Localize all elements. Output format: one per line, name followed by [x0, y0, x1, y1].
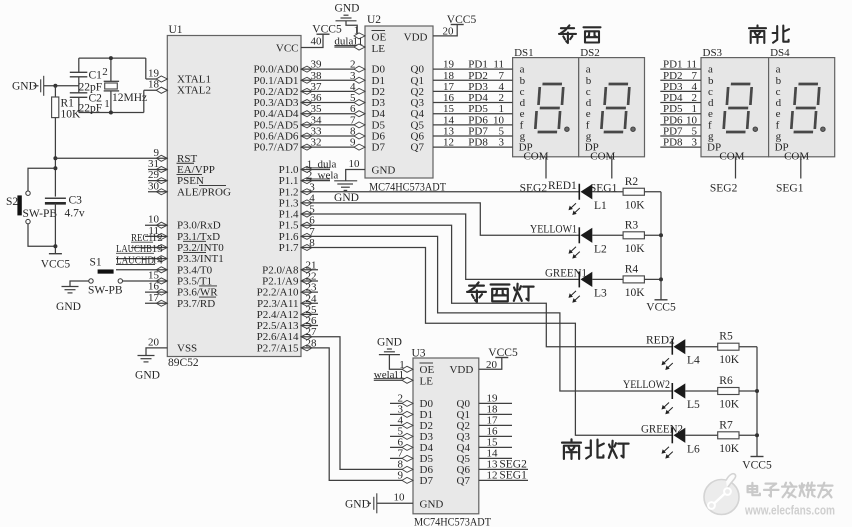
svg-text:20: 20 — [443, 26, 455, 38]
wire U2 VDD to VCC5 — [433, 25, 457, 36]
wire to XTAL1 — [145, 58, 147, 79]
wire P1.7 to GREEN2 LED — [301, 248, 672, 436]
wire VCC rail 2 — [756, 347, 758, 457]
svg-text:10K: 10K — [625, 199, 646, 211]
wire wela stub P1.1 — [301, 180, 330, 182]
wire LED to R7 — [685, 434, 717, 436]
latch U3 MC74HC573ADT body — [413, 358, 479, 514]
svg-text:VDD: VDD — [449, 364, 473, 376]
svg-text:10K: 10K — [719, 354, 740, 366]
svg-text:wela: wela — [318, 170, 339, 182]
wire gnd to R1 — [54, 86, 56, 97]
LED light arrows — [662, 447, 673, 459]
svg-text:GND: GND — [420, 499, 444, 511]
watermark text dianzifashaoyou — [748, 483, 760, 495]
svg-text:www.elecfans.com: www.elecfans.com — [744, 504, 835, 518]
power VCC5 bar (U2) — [451, 24, 464, 26]
power VCC5 bar (rail2) — [751, 456, 764, 458]
svg-text:10: 10 — [394, 492, 406, 504]
wire GND to U2 OE pin1 — [346, 21, 365, 36]
DS3 decimal point — [753, 127, 757, 131]
svg-text:GREEN1: GREEN1 — [545, 267, 587, 279]
svg-text:PD8: PD8 — [663, 137, 683, 149]
svg-text:R4: R4 — [625, 263, 639, 275]
U1 left pin arrows and numbers — [156, 76, 167, 82]
switch S2 SW-PB — [26, 191, 30, 195]
svg-text:S1: S1 — [90, 257, 102, 269]
wire COM — [800, 157, 802, 179]
U3 D0-D5 stubs with numbers — [390, 402, 413, 404]
svg-text:dula: dula — [334, 36, 353, 48]
node R1 top junction — [53, 84, 57, 88]
ground symbol left — [41, 76, 44, 96]
U3 Q0-Q5 stubs with numbers — [479, 402, 512, 404]
LED L4 RED2 — [672, 339, 685, 355]
DS2 decimal point — [631, 127, 635, 131]
XTAL1 pin arrow — [156, 76, 167, 82]
svg-text:2: 2 — [102, 66, 108, 78]
LED L2 YELLOW1 — [579, 227, 592, 243]
svg-text:L2: L2 — [594, 243, 607, 255]
svg-text:SEG2: SEG2 — [520, 183, 548, 195]
wire stub pin31 — [148, 168, 167, 170]
svg-text:DS3: DS3 — [703, 47, 723, 59]
wire VCC pin40 to VCC5 — [301, 34, 323, 47]
svg-text:17: 17 — [148, 292, 160, 304]
power VCC5 bar (reset) — [49, 253, 62, 255]
svg-text:4.7v: 4.7v — [65, 208, 85, 220]
wire U3 Q7 SEG1 — [479, 479, 528, 481]
wire LED to R2 — [592, 191, 623, 193]
U1 P1 pin arrows and numbers — [301, 166, 312, 172]
wire dula stub P1.0 — [301, 168, 330, 170]
wire dula to U2 LE pin11 — [334, 46, 365, 48]
node rail2-R6 — [755, 389, 759, 393]
wire stub pin17 P3.7 — [145, 302, 167, 304]
wire to S2 top — [28, 168, 55, 191]
wire P1.4 to GREEN1 LED — [301, 214, 579, 279]
display DS2 body — [579, 58, 645, 157]
node rail1-R4 — [659, 277, 663, 281]
svg-text:LE: LE — [420, 375, 434, 387]
capacitor C2 — [70, 92, 88, 94]
svg-text:9: 9 — [398, 469, 404, 481]
svg-text:ALE/PROG: ALE/PROG — [177, 186, 231, 198]
svg-text:3: 3 — [499, 137, 505, 149]
switch S1 SW-PB — [89, 279, 93, 283]
svg-text:DS4: DS4 — [770, 47, 790, 59]
svg-text:YELLOW2: YELLOW2 — [623, 379, 670, 391]
resistor R3 — [623, 232, 644, 239]
svg-text:U1: U1 — [169, 24, 183, 36]
svg-text:XTAL1: XTAL1 — [177, 74, 211, 86]
wire LED to R4 — [592, 278, 623, 280]
ground under U1 — [138, 356, 155, 362]
wire P2.6 to U3 D6 — [301, 337, 413, 470]
wire GND to U3 OE pin1 — [389, 355, 413, 370]
svg-text:DS2: DS2 — [580, 47, 600, 59]
wire S1 to P3.5 pin15 — [123, 280, 168, 282]
svg-text:10K: 10K — [61, 109, 82, 121]
svg-text:12: 12 — [487, 469, 498, 481]
svg-text:COM: COM — [784, 151, 809, 163]
svg-text:S2: S2 — [6, 196, 18, 208]
svg-text:wela: wela — [374, 369, 395, 381]
resistor R4 — [623, 276, 644, 283]
title East-West (dong xi) — [559, 25, 576, 43]
svg-text:LE: LE — [372, 43, 386, 55]
ground symbol U3 pin10 — [374, 493, 377, 513]
wire R5 to rail — [739, 346, 757, 348]
wire COM — [611, 157, 613, 179]
U1 P2 pin arrows and numbers — [301, 267, 312, 273]
svg-text:R2: R2 — [625, 176, 639, 188]
svg-text:GND: GND — [135, 370, 160, 382]
wela underline U3 — [374, 377, 405, 379]
U3 OE arrow — [402, 366, 413, 372]
LED L1 RED1 — [579, 184, 592, 200]
svg-text:GND: GND — [335, 3, 360, 15]
LED light arrows — [662, 358, 673, 370]
wire RST to pin 9 — [55, 157, 167, 159]
svg-text:GND: GND — [334, 192, 359, 204]
DS1 digit 8 — [535, 84, 563, 132]
svg-text:VCC5: VCC5 — [312, 24, 342, 36]
svg-text:Q7: Q7 — [411, 142, 425, 154]
wire U2 GND pin10 — [346, 169, 365, 180]
svg-text:SEG1: SEG1 — [590, 183, 618, 195]
wire LAUCHB net to P3.3 — [116, 258, 167, 260]
ground above U2 — [336, 15, 357, 21]
wire VCC rail 1 — [660, 192, 662, 300]
wires U2 Q0-Q7 to DS1 with PD1-PD8 labels — [433, 68, 513, 70]
node crystal bottom — [109, 111, 113, 115]
LED light arrows — [662, 403, 673, 415]
svg-text:C1: C1 — [89, 70, 103, 82]
label South-North lamps (nan bei deng) — [562, 439, 581, 459]
ground under S1 — [62, 287, 79, 293]
svg-text:P1.7: P1.7 — [279, 242, 299, 254]
svg-text:C3: C3 — [69, 195, 83, 207]
svg-text:SEG2: SEG2 — [710, 183, 738, 195]
gnd tick — [34, 85, 39, 87]
label East-West lamps (dong xi deng) — [467, 282, 486, 302]
wire U3 Q6 SEG2 — [479, 468, 528, 470]
svg-text:20: 20 — [148, 336, 160, 348]
wela underline — [306, 178, 330, 180]
svg-text:SW-PB: SW-PB — [23, 208, 58, 220]
resistor R1 — [52, 97, 59, 118]
wire COM — [545, 157, 547, 179]
wire ground to U3 GND — [377, 502, 413, 504]
svg-text:VCC: VCC — [276, 43, 299, 55]
bus wires P0.0-P0.7 to U2 D0-D7 — [301, 68, 365, 70]
svg-text:PD8: PD8 — [468, 137, 488, 149]
svg-text:R5: R5 — [719, 331, 733, 343]
wire wela to U3 LE pin11 — [374, 379, 413, 381]
svg-text:D7: D7 — [372, 142, 386, 154]
wire stubs P2.0-P2.5 — [301, 269, 318, 271]
svg-text:VCC5: VCC5 — [447, 14, 477, 26]
svg-text:1: 1 — [104, 98, 110, 110]
svg-text:VCC5: VCC5 — [488, 347, 518, 359]
wires PD1-PD8 stubs to DS3 — [660, 68, 701, 70]
svg-text:R7: R7 — [719, 419, 733, 431]
wire C3 to VCC5 — [54, 203, 56, 253]
svg-text:22pF: 22pF — [79, 103, 103, 115]
XTAL2 pin arrow — [156, 87, 167, 93]
svg-text:D7: D7 — [420, 475, 434, 487]
power VCC5 bar (U1) — [317, 33, 330, 35]
node crystal top — [109, 56, 113, 60]
LED L5 YELLOW2 — [672, 383, 685, 399]
wire S1 to ground — [70, 281, 89, 287]
svg-text:MC74HC573ADT: MC74HC573ADT — [414, 517, 491, 527]
U3 LE arrow — [402, 377, 413, 383]
svg-text:10K: 10K — [625, 287, 646, 299]
svg-text:40: 40 — [311, 36, 323, 48]
svg-text:14: 14 — [152, 254, 164, 266]
wire stub pin30 — [148, 191, 167, 193]
LAUCHD underline — [116, 264, 155, 266]
LED L6 GREEN2 — [672, 427, 685, 443]
node rail1-R3 — [659, 233, 663, 237]
DS1 decimal point — [565, 127, 569, 131]
wire R3 to rail — [644, 234, 661, 236]
svg-text:L3: L3 — [594, 287, 607, 299]
svg-text:RED2: RED2 — [646, 335, 675, 347]
svg-text:XTAL2: XTAL2 — [177, 85, 211, 97]
wire stub pin11 P3.1 — [145, 235, 167, 237]
display DS3 body — [701, 58, 769, 157]
latch U2 MC74HC573ADT body — [365, 26, 433, 178]
svg-text:9: 9 — [350, 137, 356, 149]
ground below U2 pin10 — [334, 180, 357, 182]
svg-text:COM: COM — [719, 151, 744, 163]
svg-text:L5: L5 — [687, 399, 700, 411]
svg-text:2: 2 — [307, 170, 313, 182]
wire LED to R3 — [592, 234, 623, 236]
svg-text:R6: R6 — [719, 375, 733, 387]
svg-text:DS1: DS1 — [514, 47, 534, 59]
svg-text:30: 30 — [148, 180, 160, 192]
op-amp U1 89C52 body — [167, 36, 301, 357]
svg-text:GND: GND — [12, 81, 37, 93]
crystal X1 12MHz — [110, 58, 112, 81]
wire VSS to ground — [146, 348, 167, 356]
svg-text:VSS: VSS — [177, 342, 197, 354]
svg-text:12MHz: 12MHz — [112, 92, 147, 104]
dula underline U2 — [334, 45, 362, 47]
LED light arrows — [569, 203, 580, 215]
wire LED to R5 — [685, 346, 717, 348]
wire gnd to caps — [44, 85, 79, 87]
svg-text:VCC5: VCC5 — [742, 460, 772, 472]
wire REC1 net to P3.2 — [131, 247, 167, 249]
svg-text:10K: 10K — [719, 443, 740, 455]
svg-text:L1: L1 — [594, 200, 607, 212]
LAUCHB underline — [116, 252, 154, 254]
wire P1.2 to RED1 LED — [301, 191, 579, 193]
wire P2.7 to U3 D7 — [301, 348, 413, 481]
svg-text:VDD: VDD — [404, 32, 428, 44]
node C3/S2/VCC5 — [53, 244, 57, 248]
svg-text:SEG1: SEG1 — [499, 469, 527, 481]
svg-text:SEG1: SEG1 — [776, 183, 804, 195]
title South-North (nan bei) — [749, 25, 766, 43]
svg-text:3: 3 — [692, 137, 698, 149]
wire C1 top vert — [78, 58, 80, 72]
wire P1.6 to YELLOW2 LED — [301, 236, 672, 391]
wire R4 to rail — [644, 278, 661, 280]
svg-text:GND: GND — [372, 164, 396, 176]
svg-text:GND: GND — [377, 337, 402, 349]
wire LAUCHD net to P3.4 — [116, 269, 167, 271]
svg-text:OE: OE — [420, 364, 435, 376]
svg-text:P2.7/A15: P2.7/A15 — [257, 342, 299, 354]
wire stub pin10 P3.0 — [145, 224, 167, 226]
svg-text:R3: R3 — [625, 219, 639, 231]
DS4 decimal point — [821, 127, 825, 131]
power VCC5 bar (U3) — [495, 357, 508, 359]
dula underline — [306, 167, 330, 169]
LED light arrows — [569, 247, 580, 259]
wire R2 to rail — [644, 191, 661, 193]
wire stub pin29 — [148, 180, 167, 182]
DS4 digit 8 — [791, 84, 819, 132]
ground above U3 — [379, 349, 400, 355]
wire to XTAL2 — [143, 90, 145, 112]
watermark logo — [704, 474, 739, 515]
wire R7 to rail — [739, 434, 757, 436]
svg-text:COM: COM — [523, 151, 548, 163]
U1 P0 pin arrows and numbers — [301, 66, 312, 72]
gnd tick U3 — [368, 502, 372, 504]
svg-text:20: 20 — [486, 359, 498, 371]
U2 LE arrow — [354, 44, 365, 50]
wire P1.3 to YELLOW1 LED — [301, 203, 579, 235]
node RST — [53, 156, 57, 160]
svg-text:VCC5: VCC5 — [646, 302, 676, 314]
svg-text:GND: GND — [345, 499, 370, 511]
svg-text:12: 12 — [443, 137, 454, 149]
svg-text:U2: U2 — [367, 14, 381, 26]
display DS1 body — [513, 58, 579, 157]
svg-text:OE: OE — [372, 32, 387, 44]
U2 OE arrow — [354, 33, 365, 39]
wire C1-C2 vert — [78, 77, 80, 93]
wire R1 to C3 — [54, 118, 56, 197]
svg-text:L4: L4 — [687, 355, 700, 367]
LED light arrows — [569, 291, 580, 303]
REC1 underline — [131, 241, 153, 243]
svg-text:YELLOW1: YELLOW1 — [530, 223, 577, 235]
wire P1.5 to RED2 LED — [301, 225, 672, 347]
LED L3 GREEN1 — [579, 271, 592, 287]
svg-text:SW-PB: SW-PB — [88, 285, 123, 297]
svg-text:P3.7/RD: P3.7/RD — [177, 298, 215, 310]
svg-text:VCC5: VCC5 — [41, 259, 71, 271]
svg-text:11: 11 — [394, 369, 405, 381]
wire C2 bottom vert — [78, 97, 80, 112]
svg-text:Q7: Q7 — [457, 475, 471, 487]
svg-text:89C52: 89C52 — [168, 357, 199, 369]
svg-text:U3: U3 — [412, 348, 426, 360]
DS2 digit 8 — [601, 84, 629, 132]
resistor R2 — [623, 188, 644, 195]
svg-text:10K: 10K — [625, 243, 646, 255]
power VCC5 bar (rail1) — [655, 299, 668, 301]
svg-text:RED1: RED1 — [548, 180, 577, 192]
wire XTAL2 bottom — [79, 112, 144, 114]
svg-text:GND: GND — [56, 301, 81, 313]
svg-text:10: 10 — [349, 158, 361, 170]
wire LED to R6 — [685, 390, 717, 392]
node rail2-R7 — [755, 433, 759, 437]
DS3 digit 8 — [724, 84, 752, 132]
node S2 top — [53, 166, 57, 170]
display DS4 body — [769, 58, 835, 157]
wire XTAL1 top — [79, 57, 146, 59]
svg-text:L6: L6 — [687, 443, 700, 455]
resistor R5 — [718, 343, 739, 350]
wire stub pin16 P3.6 — [145, 291, 167, 293]
capacitor C1 — [70, 71, 88, 73]
svg-text:P0.7/AD7: P0.7/AD7 — [254, 142, 300, 154]
resistor R6 — [718, 388, 739, 395]
capacitor C3 — [45, 197, 66, 199]
svg-text:10K: 10K — [719, 399, 740, 411]
wire U3 VDD to VCC5 — [479, 358, 502, 370]
wire R6 to rail — [739, 390, 757, 392]
resistor R7 — [718, 432, 739, 439]
wire S2 bottom — [28, 224, 55, 246]
wire COM — [735, 157, 737, 179]
